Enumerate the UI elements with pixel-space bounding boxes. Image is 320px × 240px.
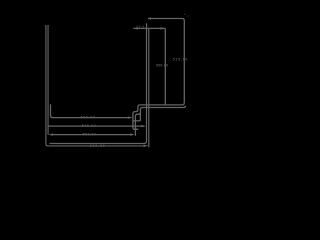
- svg-text:500.00: 500.00: [156, 63, 168, 67]
- arrow D4 right: [144, 145, 149, 147]
- arrow H28 left: [133, 27, 138, 29]
- arrow D3 right: [130, 133, 135, 135]
- arrow D1 right: [128, 116, 133, 118]
- svg-text:600.00: 600.00: [90, 144, 105, 148]
- svg-text:550.00: 550.00: [83, 132, 96, 136]
- arrow H28 right: [161, 27, 166, 29]
- arrow D2 right: [141, 125, 146, 127]
- wire dim D2: [48, 125, 144, 127]
- wire right pair outer: [50, 23, 147, 143]
- arrow top leader: [148, 17, 151, 19]
- wire step outer: [135, 106, 185, 136]
- speck near top corner: [184, 13, 185, 16]
- wire left outer vertical: [46, 25, 145, 146]
- wire right pair inner: [148, 28, 150, 147]
- svg-text:50.0: 50.0: [137, 25, 145, 29]
- wire dim D3: [51, 134, 133, 136]
- speck near top corner 2: [188, 15, 189, 18]
- node rung: [133, 120, 140, 122]
- wire top leader: [148, 19, 185, 103]
- wire dim top h28: [133, 27, 165, 29]
- wire left inner vertical: [47, 25, 49, 135]
- svg-text:525.00: 525.00: [173, 57, 188, 61]
- wire step inner: [133, 103, 184, 130]
- wire vdim mid: [164, 28, 166, 104]
- wire extension stub left: [51, 104, 131, 117]
- arrow D3 left: [48, 133, 53, 135]
- svg-text:500.00: 500.00: [81, 115, 95, 119]
- svg-text:525.00: 525.00: [82, 124, 96, 128]
